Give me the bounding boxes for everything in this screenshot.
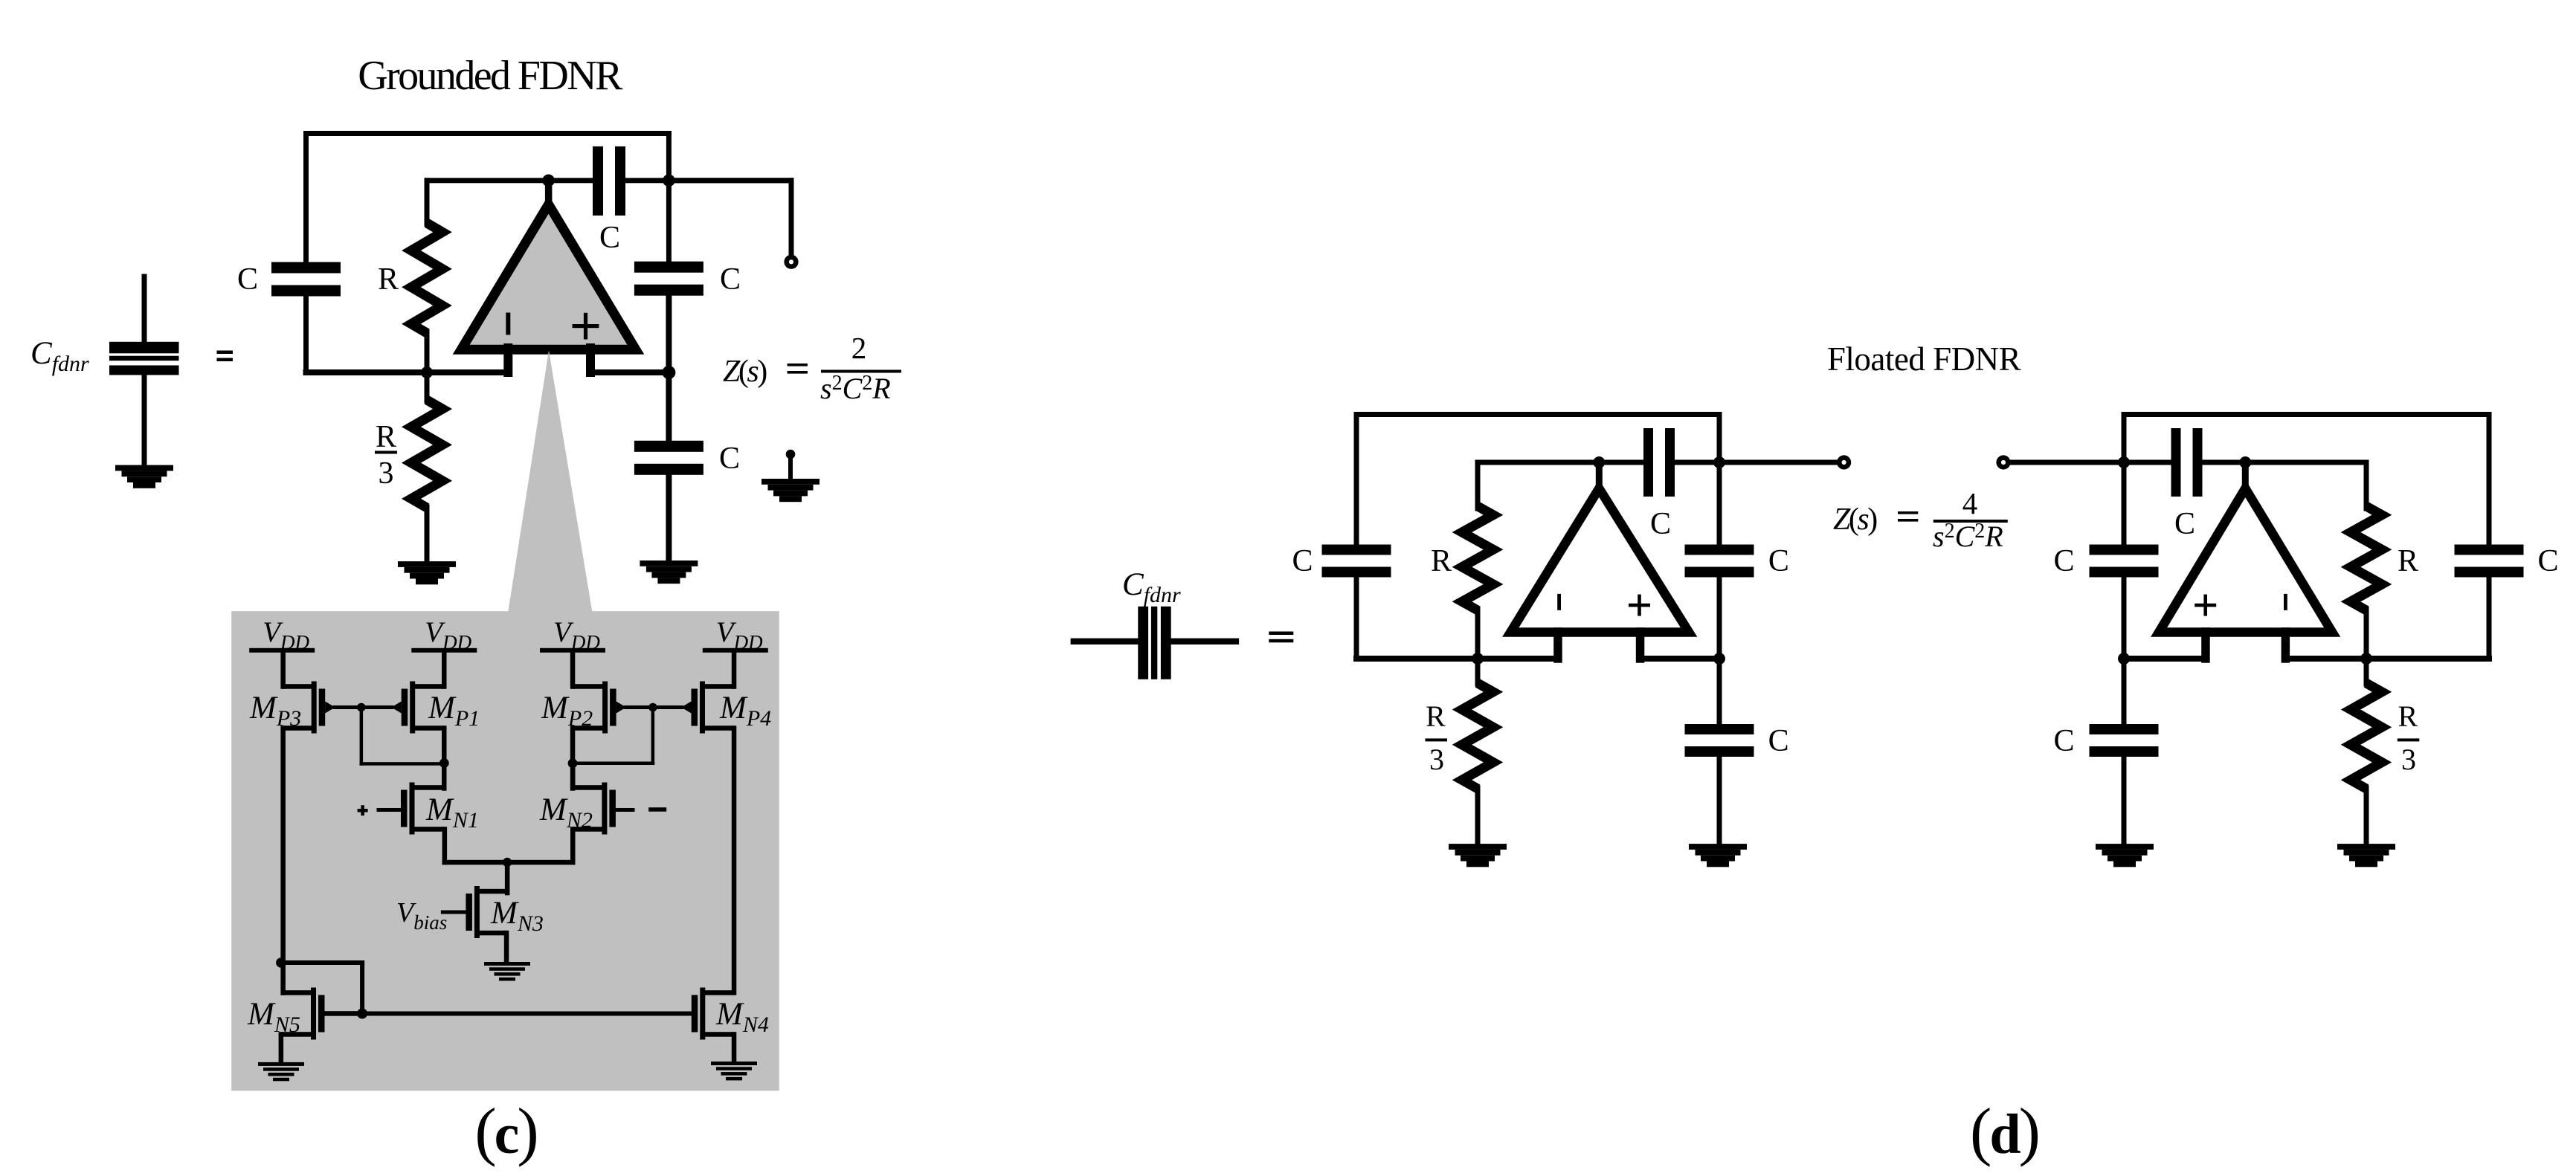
wire bottom left segment d-left xyxy=(1353,656,1561,662)
node junction op-amp output xyxy=(542,175,555,187)
node right top d-left xyxy=(1713,456,1725,468)
op-amp U1 plus input mark xyxy=(573,324,599,328)
wire tail to MN3 xyxy=(505,860,510,896)
wire left vertical xyxy=(303,131,309,265)
svg-text:R: R xyxy=(378,262,399,297)
wire output stub d-left xyxy=(1596,459,1603,494)
wire output stub d-right xyxy=(2242,459,2249,494)
ground right branch xyxy=(640,560,698,566)
node MP2 drain junction xyxy=(568,758,578,768)
op-amp internal schematic box xyxy=(231,611,779,1091)
ground MN4 earth xyxy=(711,1062,757,1065)
wire to ground right xyxy=(666,471,672,564)
wire output stub to op-amp xyxy=(545,177,553,209)
minus input label xyxy=(648,807,666,812)
equals sign xyxy=(217,351,234,355)
node junction right bottom xyxy=(662,366,675,379)
wire MN1 gate lead xyxy=(377,808,403,812)
wire left vertical d-left xyxy=(1354,412,1359,548)
node junction right top xyxy=(663,175,675,187)
svg-text:3: 3 xyxy=(379,456,394,491)
wire MP2 drain down xyxy=(570,726,576,790)
callout triangle to op-amp internals xyxy=(508,350,592,612)
wire op-amp input stub left xyxy=(503,343,512,377)
svg-text:R: R xyxy=(2398,544,2418,578)
wire right vertical top xyxy=(666,131,672,265)
wire bottom right segment d-left xyxy=(1638,656,1722,662)
op-amp U2 triangle xyxy=(1510,488,1689,633)
svg-text:3: 3 xyxy=(2401,743,2416,776)
wire MN5 gate lead xyxy=(322,1011,364,1016)
VDD supply rail 2 xyxy=(411,648,477,653)
wire op-amp U2 stub left xyxy=(1553,627,1562,663)
ground below Cfdnr xyxy=(115,465,173,471)
wire MP4 gate lead xyxy=(651,705,683,709)
svg-text:s2C2R: s2C2R xyxy=(1933,520,2003,553)
capacitor C feedback d-left xyxy=(1643,428,1653,497)
wire MP3 gate lead xyxy=(333,705,364,709)
svg-text:C: C xyxy=(1292,544,1313,578)
wire bottom left segment xyxy=(303,369,512,375)
transistor MP3 xyxy=(312,682,317,734)
node MP1 drain junction xyxy=(439,758,449,768)
wire left vertical top d-right xyxy=(2122,412,2127,465)
transistor MN1 xyxy=(410,783,415,835)
wire MP1 gate lead xyxy=(359,705,393,709)
VDD supply rail 3 xyxy=(540,648,605,653)
capacitor C top feedback xyxy=(593,146,603,216)
wire rail to MN5 gate xyxy=(279,960,364,965)
svg-text:R: R xyxy=(1431,544,1452,578)
ground right d-left xyxy=(1689,844,1747,850)
op-amp U3 triangle xyxy=(2159,488,2332,633)
op-amp U1 minus input mark xyxy=(506,313,510,335)
svg-text:C: C xyxy=(599,221,620,255)
terminal port d-left xyxy=(1837,455,1851,469)
wire R top stub xyxy=(425,178,430,226)
resistor R xyxy=(411,223,442,333)
wire bottom left segment d-right xyxy=(2121,656,2209,662)
node R bottom d-right xyxy=(2360,653,2372,665)
wire MN3 source to ground xyxy=(504,931,509,965)
svg-text:(d): (d) xyxy=(1970,1096,2038,1168)
svg-text:4: 4 xyxy=(1962,486,1978,520)
MP2 pmos arrow xyxy=(616,702,627,714)
node MN5 gate junction xyxy=(357,1009,367,1019)
wire right vertical d-right xyxy=(2487,412,2492,548)
node op-amp output d-right xyxy=(2239,456,2251,468)
svg-text:C: C xyxy=(2537,544,2558,578)
wire top feedback xyxy=(303,131,672,136)
wire MN2 drain up xyxy=(570,761,576,790)
capacitor C right lower d-left xyxy=(1717,656,1722,727)
capacitor C right lower xyxy=(666,369,672,445)
wire right rail MP4 to MN4 xyxy=(732,726,737,995)
FDNR element Cfdnr symbol xyxy=(142,274,147,346)
wire R bottom stub xyxy=(425,329,430,375)
svg-text:Floated FDNR: Floated FDNR xyxy=(1827,340,2021,378)
wire to ground d-left xyxy=(1717,754,1722,847)
capacitor C right upper xyxy=(634,262,703,273)
wire inverting node d-right xyxy=(2122,460,2174,465)
op-amp U1 triangle xyxy=(461,204,636,349)
svg-text:C: C xyxy=(2053,544,2074,578)
FDNR element Cfdnr symbol horizontal xyxy=(1071,639,1142,644)
wire gate bus MN5 to MN4 xyxy=(360,1012,695,1016)
MP1 pmos arrow xyxy=(391,702,402,714)
wire op-amp U2 stub right xyxy=(1636,627,1645,663)
wire MP1 source to VDD xyxy=(442,650,447,689)
node right bottom d-left xyxy=(1713,653,1725,665)
wire MP4 source to VDD xyxy=(732,650,737,689)
node left top d-right xyxy=(2118,456,2130,468)
svg-text:(c): (c) xyxy=(474,1096,536,1168)
wire bottom right segment d-right xyxy=(2282,656,2492,662)
ground MN5 earth xyxy=(258,1062,304,1066)
VDD supply rail 1 xyxy=(249,648,315,653)
terminal port d-right xyxy=(1996,455,2010,469)
node op-amp output d-left xyxy=(1593,456,1605,468)
wire gate node to MP1 drain xyxy=(360,705,364,765)
ground R/3 d-left xyxy=(1449,844,1507,850)
capacitor C right d-right xyxy=(2455,545,2524,555)
svg-text:R: R xyxy=(2398,700,2418,733)
ground R/3 d-right xyxy=(2337,844,2395,850)
svg-text:C: C xyxy=(237,262,258,297)
wire op-amp U3 stub left xyxy=(2201,627,2210,663)
transistor MP1 xyxy=(410,682,415,734)
wire inverting node xyxy=(425,178,598,183)
svg-text:Z(s): Z(s) xyxy=(723,355,767,389)
resistor R/3 d-left xyxy=(1475,656,1481,687)
capacitor C left xyxy=(271,262,341,274)
wire MP2 drain to gate node xyxy=(571,762,654,766)
wire R top d-left xyxy=(1475,460,1481,511)
wire R bottom d-left xyxy=(1475,607,1481,662)
svg-text:3: 3 xyxy=(1429,743,1444,776)
capacitor C lower d-right xyxy=(2122,656,2127,727)
svg-text:C: C xyxy=(1650,507,1671,541)
resistor R d-left xyxy=(1462,506,1493,610)
wire MN2 source down xyxy=(570,827,576,865)
svg-text:C: C xyxy=(720,262,741,297)
svg-text:R: R xyxy=(1426,700,1446,733)
transistor MN3 xyxy=(474,886,480,938)
ground below R/3 xyxy=(398,561,456,567)
transistor MN2 xyxy=(602,783,607,835)
wire to ground left d-right xyxy=(2122,754,2127,847)
wire top feedback d-right xyxy=(2122,412,2492,417)
wire MN4 source to ground xyxy=(732,1032,737,1064)
wire MN2 gate lead xyxy=(614,808,634,812)
wire op-amp input stub right xyxy=(586,343,595,377)
equals sign d xyxy=(1269,632,1293,636)
wire MP3 source to VDD xyxy=(280,650,286,689)
capacitor C left d-right xyxy=(2122,460,2127,549)
wire MP2 source to VDD xyxy=(570,650,576,689)
wire to output port d-left xyxy=(1717,460,1840,465)
wire MN5 source to ground xyxy=(279,1032,284,1064)
capacitor C right upper d-left xyxy=(1685,545,1754,555)
ground MN3 earth xyxy=(484,962,530,966)
wire right vertical d-left xyxy=(1717,412,1722,548)
node gate junction MP2-MP4 xyxy=(648,703,657,712)
op-amp U3 minus mark xyxy=(2284,594,2287,610)
node left bottom d-right xyxy=(2118,653,2130,665)
resistor R/3 xyxy=(425,370,430,404)
terminal output port xyxy=(784,255,798,269)
wire top feedback d-left xyxy=(1354,412,1722,417)
svg-text:C: C xyxy=(719,442,740,476)
capacitor C feedback d-right xyxy=(2171,428,2181,497)
ground left d-right xyxy=(2096,844,2154,850)
svg-text:R: R xyxy=(376,420,396,454)
transistor MN4 xyxy=(700,988,705,1040)
transistor MN5 xyxy=(311,988,316,1040)
wire bottom right segment xyxy=(587,369,672,375)
wire MP2 gate lead xyxy=(624,705,654,709)
resistor R d-right xyxy=(2364,460,2369,511)
svg-text:C: C xyxy=(2174,507,2195,541)
wire MN1 source down xyxy=(442,827,448,865)
resistor R/3 d-right xyxy=(2364,656,2369,687)
node gate junction MP3-MP1 xyxy=(357,703,366,712)
node R bottom d-left xyxy=(1472,653,1484,665)
svg-text:C: C xyxy=(2053,724,2074,758)
wire from port d-right xyxy=(2009,460,2127,465)
plus input label xyxy=(358,809,368,812)
op-amp U3 plus mark xyxy=(2195,604,2216,607)
op-amp U2 plus mark xyxy=(1629,604,1650,607)
transistor MP2 xyxy=(602,682,608,734)
wire inverting node d-left xyxy=(1475,460,1647,465)
capacitor C left d-left xyxy=(1322,545,1391,555)
wire MP1 drain down xyxy=(442,726,447,790)
wire MN3 gate lead xyxy=(441,911,468,914)
svg-text:C: C xyxy=(1768,544,1789,578)
wire right vertical middle xyxy=(666,292,672,375)
svg-text:Grounded FDNR: Grounded FDNR xyxy=(358,53,623,99)
transistor MP4 xyxy=(700,682,705,734)
wire output port xyxy=(666,178,794,183)
wire op-amp U3 stub right xyxy=(2282,627,2290,663)
node junction R bottom xyxy=(421,366,433,378)
VDD supply rail 4 xyxy=(703,648,768,653)
node left rail junction xyxy=(276,957,286,968)
svg-text:s2C2R: s2C2R xyxy=(820,372,891,405)
MP3 pmos arrow xyxy=(325,702,335,714)
svg-text:Z(s): Z(s) xyxy=(1833,503,1877,537)
wire left rail MP3 to MN5 xyxy=(280,726,286,965)
op-amp U2 minus mark xyxy=(1557,594,1561,610)
svg-text:2: 2 xyxy=(851,331,867,365)
svg-text:C: C xyxy=(1768,724,1789,758)
MP4 pmos arrow xyxy=(681,702,692,714)
port ground terminal xyxy=(786,450,796,459)
node tail junction xyxy=(503,858,512,867)
